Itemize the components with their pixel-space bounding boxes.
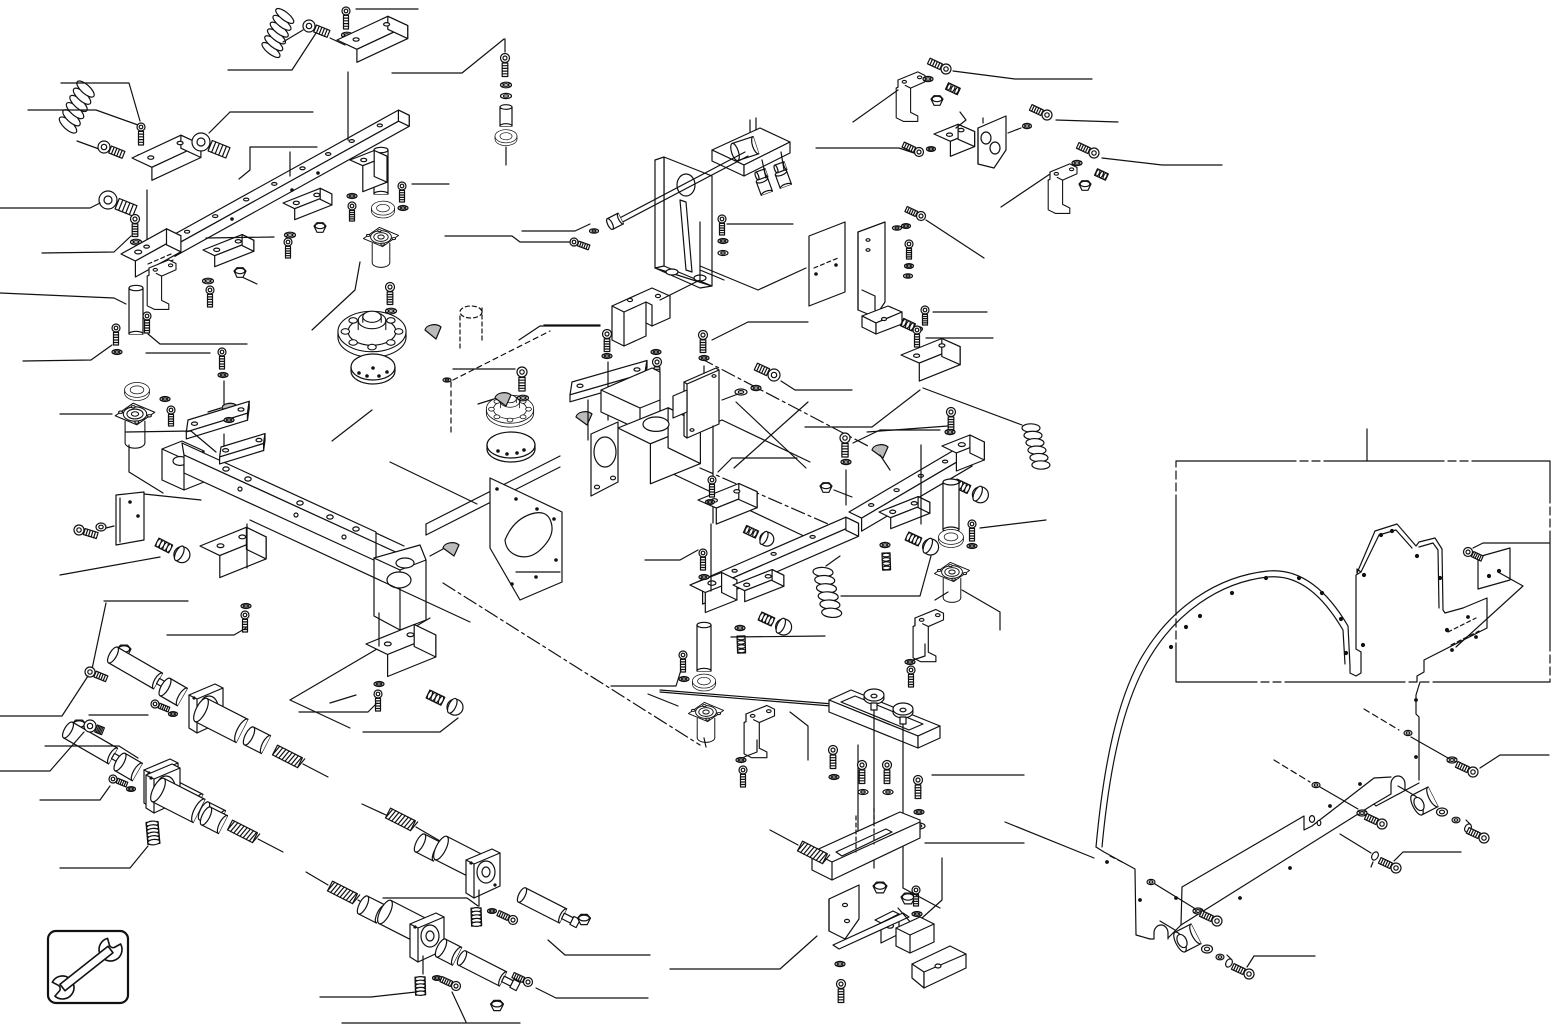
blade BC: [833, 908, 912, 949]
washer RLb: [1216, 954, 1224, 960]
left foot fastener line: [1155, 884, 1194, 908]
plate bottom-left edge: [390, 462, 477, 504]
tab bracket V3: [673, 390, 687, 418]
shock spring: [273, 745, 305, 768]
bolt RM: [708, 476, 716, 497]
ring below rotor2: [487, 432, 535, 462]
sheet plate V1: [809, 222, 845, 306]
top plate BC: [829, 690, 940, 748]
washer L: [433, 976, 442, 981]
axis line RRm: [1340, 834, 1371, 853]
washer under T1: [342, 32, 353, 38]
wedge w6 tail: [208, 408, 221, 412]
wrench icon box: [48, 931, 128, 1003]
tall cylinder CL: [697, 622, 711, 671]
leader bolt T1: [356, 8, 418, 10]
stud U: [471, 907, 482, 926]
leader RM: [718, 458, 797, 472]
washer BC-b: [858, 790, 868, 795]
panel foot arch left: [1154, 925, 1168, 933]
bolt L2: [440, 977, 461, 991]
small bar A: [220, 434, 265, 464]
washer U: [651, 350, 661, 355]
plate rear edge right: [672, 420, 722, 442]
bolt RM3: [1364, 814, 1387, 829]
bolt BC-f: [837, 980, 846, 1003]
clip BC: [875, 911, 899, 943]
bolt V2: [905, 240, 913, 259]
frame beam front holes: [238, 487, 242, 491]
T bracket MR2: [913, 609, 943, 661]
flange unit RA: [934, 562, 969, 602]
hex nut BC1: [873, 882, 887, 893]
line LP: [106, 526, 114, 528]
slide unit on rail upper: [283, 188, 332, 219]
shock sleeve: [112, 751, 143, 780]
washer MR2: [905, 660, 915, 665]
washer bar A: [224, 418, 234, 423]
washer BC-d1: [914, 810, 924, 815]
washer RL3: [699, 575, 709, 580]
leader BC right1: [932, 774, 1024, 776]
ring bearing H: [371, 201, 394, 218]
washer BC-c: [883, 790, 893, 795]
washer SG2: [127, 787, 136, 792]
leader LP plate: [144, 494, 201, 500]
long slat center: [570, 361, 647, 402]
bracket BC right: [896, 917, 934, 953]
tall cylinder RA: [943, 479, 959, 530]
screw K: [570, 238, 590, 250]
detail box border: [1176, 461, 1550, 682]
big socket bolt D: [99, 191, 137, 216]
flange U: [466, 849, 500, 898]
left foot bolt: [1199, 911, 1222, 926]
leader mid1c: [45, 746, 138, 758]
vertical line LL: [246, 524, 248, 568]
bolt SG1: [85, 667, 108, 682]
screw SG1b: [151, 700, 170, 712]
frame corner block left: [162, 441, 204, 490]
upper right dashed: [1364, 709, 1399, 730]
leader V plates: [700, 266, 806, 290]
frame left beam front face: [184, 455, 376, 561]
washer RLa: [1202, 945, 1213, 953]
grey wedge w3: [576, 412, 592, 425]
washer TR3: [1023, 123, 1032, 128]
shock big cylinder: [191, 696, 248, 742]
washer RM: [706, 500, 715, 505]
bolt top T1: [342, 7, 350, 29]
washer above rotor1: [386, 308, 397, 314]
spring L5 tail: [358, 900, 384, 915]
washer Q2: [751, 385, 761, 390]
line P4 down: [845, 470, 847, 505]
leader RA3: [980, 520, 1046, 528]
lockwasher RM2: [1447, 757, 1457, 763]
leader P2: [519, 326, 600, 340]
washer TR1: [923, 76, 933, 81]
T-bracket TR4: [1048, 164, 1077, 214]
bolt TR3: [1029, 105, 1052, 120]
shock spring: [228, 820, 260, 843]
bolt F: [284, 238, 292, 258]
bolt stack M1: [501, 54, 510, 77]
window cutout plate: [490, 478, 562, 600]
bolt RRm: [1378, 858, 1401, 873]
line MS to spring: [923, 388, 1022, 425]
leader RRm: [1394, 852, 1461, 861]
rail end block: [121, 229, 181, 277]
washer BC-a: [829, 775, 839, 780]
hex nut TR4: [1079, 181, 1091, 191]
washer TR4: [1072, 160, 1082, 165]
shock U: [516, 886, 581, 927]
wedge w4 tail: [880, 455, 890, 470]
holder mid: [146, 764, 180, 813]
panel upper long edge: [1182, 777, 1391, 887]
leader BC right2: [925, 842, 1024, 844]
bolt RU: [947, 408, 956, 430]
line MR: [834, 490, 852, 497]
washer V4: [904, 274, 913, 278]
spring m2: [386, 808, 418, 831]
zig line TR2: [956, 112, 966, 128]
fitting LR: [426, 690, 445, 705]
grey wedge w1: [425, 325, 441, 339]
stud TR1: [946, 83, 961, 95]
line CL down: [704, 738, 706, 747]
leader flange FL: [60, 413, 112, 415]
ring left: [125, 382, 150, 400]
rail R-lower: [690, 517, 859, 604]
microswitch block: [901, 339, 960, 382]
bolt Q: [754, 363, 780, 381]
mushroom screw BC1: [864, 689, 884, 710]
knob screw RL: [758, 612, 775, 626]
line P2 down: [607, 362, 609, 420]
washer RRb: [1452, 817, 1460, 823]
washer V1: [893, 226, 902, 230]
rail main: [164, 110, 409, 256]
panel arch outer: [1096, 571, 1350, 847]
leader M1: [392, 39, 504, 73]
base plate BC: [812, 812, 920, 880]
leader flange RA: [962, 590, 1000, 630]
dashed lines BC: [855, 816, 857, 852]
vertical line RR2: [712, 426, 714, 523]
bolt FL: [112, 324, 120, 345]
bolt TR1: [928, 58, 952, 74]
bolt RM2: [1455, 762, 1478, 777]
grey wedge w5: [443, 543, 459, 556]
rail R-upper: [849, 447, 972, 531]
left foot lockwasher: [1193, 908, 1203, 914]
centerline dashdot 1: [443, 583, 700, 745]
lockwasher RM3: [1357, 810, 1367, 816]
leader spring A: [228, 30, 318, 70]
leader BC lower: [670, 936, 817, 969]
block TR2a: [934, 124, 975, 156]
big socket bolt C: [192, 133, 230, 158]
block TR2b: [978, 116, 1006, 168]
leader G2: [148, 334, 247, 344]
washer BC-g: [912, 912, 922, 917]
leader L group: [320, 992, 416, 997]
slide unit RL: [733, 570, 784, 602]
washer LR: [374, 682, 384, 687]
bolt J: [718, 215, 726, 235]
junction block: [374, 545, 426, 630]
stud RU: [882, 553, 891, 570]
leader spring L5: [306, 872, 328, 885]
panel castellation top: [1357, 524, 1463, 613]
spring BC: [798, 841, 830, 864]
side plate V3 center: [684, 368, 719, 438]
wire spring B: [77, 141, 99, 149]
leader L bottom: [342, 1022, 520, 1024]
line arch to roller: [1160, 921, 1175, 930]
U-channel block: [612, 288, 670, 346]
sleeve L2: [433, 937, 462, 965]
leader BC left: [790, 712, 808, 760]
wrench icon: [52, 938, 122, 999]
shock big cylinder: [146, 771, 203, 817]
stud RL: [737, 636, 746, 653]
leader stand foot: [700, 270, 724, 280]
leader spring m2: [362, 804, 386, 815]
leader P1: [453, 368, 515, 370]
shoulder bolt A: [303, 20, 330, 37]
bolt BC-d: [914, 776, 923, 799]
washer SG1b: [169, 712, 178, 717]
washer P1: [518, 395, 529, 401]
bolt above rotor1: [386, 283, 395, 305]
leader LR3: [330, 695, 356, 703]
leader K: [445, 236, 570, 242]
washer TR2: [927, 147, 936, 152]
leader RL: [1247, 956, 1315, 967]
washer LL: [241, 604, 251, 609]
rail R-upper end block: [942, 435, 984, 471]
panel plate BR: [1417, 598, 1487, 682]
washer E: [131, 239, 142, 245]
shock sleeve 2: [196, 800, 225, 828]
tall cylinder TR: [374, 147, 388, 194]
line P3 down: [703, 366, 705, 420]
slide unit RU: [879, 497, 930, 529]
frame left beam top face: [182, 443, 376, 543]
bracket on rail right: [350, 151, 387, 192]
washer V3: [905, 264, 914, 269]
leader Q: [781, 381, 852, 390]
rail R-lower end block: [690, 573, 737, 613]
washer J2: [718, 251, 728, 256]
leader bolt D: [0, 203, 100, 208]
spring A top: [258, 5, 299, 61]
leader TR4b: [1102, 158, 1222, 165]
wedge w2 tail: [478, 399, 494, 404]
leader BC-g: [922, 858, 942, 918]
washer stack M1a: [501, 82, 512, 88]
rotor assembly 1: [338, 311, 406, 357]
screw in box: [1464, 548, 1484, 562]
bolt I: [398, 182, 406, 202]
panel castellation top inner: [1361, 530, 1439, 608]
washer P3: [699, 356, 709, 361]
hex nut slide1: [234, 268, 246, 278]
leader L1 to bolt B3: [61, 83, 140, 121]
piston rod: [612, 152, 745, 222]
leader V: [926, 220, 984, 258]
dashed ghost cylinder: [459, 316, 461, 348]
plate rear edge left: [426, 456, 560, 524]
washer LP: [96, 523, 106, 531]
bolt G: [143, 312, 151, 333]
bolt below slide1: [206, 286, 214, 307]
leader P4: [853, 430, 940, 443]
bolt SG2 knob: [84, 720, 104, 735]
line BC right3: [903, 888, 940, 908]
bolt SG2: [109, 775, 128, 787]
panel right lower edge: [1416, 682, 1420, 780]
leader rotor1: [332, 410, 372, 441]
leader RL3: [645, 550, 698, 560]
fastener line RM3: [1320, 787, 1358, 809]
washer RA3: [967, 544, 977, 549]
ring small M1: [495, 130, 517, 146]
grey wedge w6: [222, 403, 236, 415]
frame left beam holes: [223, 467, 229, 471]
vertical line RR3: [920, 445, 922, 524]
fitting LL stud: [155, 538, 173, 553]
leader LR1: [299, 703, 377, 712]
bolt CL4: [739, 766, 747, 787]
angle bracket BC: [829, 885, 859, 939]
leader CL2: [648, 694, 678, 706]
grey wedge w4: [872, 445, 888, 458]
fastener line RM2: [1411, 737, 1448, 758]
dashed vert line: [450, 382, 452, 432]
T-bracket TR1: [896, 72, 925, 122]
leader U group: [383, 898, 478, 906]
X cross lines: [734, 402, 808, 468]
vertical line BC2: [902, 724, 904, 888]
line L down: [422, 956, 424, 974]
plate floor edge B: [250, 520, 470, 622]
lower right dashed: [1274, 760, 1310, 782]
line CL4: [744, 740, 757, 757]
small plate in box: [1478, 548, 1510, 589]
hexnut L: [491, 1000, 504, 1010]
rod end cap: [605, 213, 623, 230]
bolt P3: [699, 331, 708, 353]
hole washer RM2: [1404, 730, 1412, 735]
rotor1 base dots: [358, 372, 360, 374]
flange L: [410, 913, 444, 962]
washer FL: [112, 350, 122, 355]
leader spring R2: [841, 556, 931, 596]
cylinder L: [375, 898, 427, 942]
washer FL2: [160, 397, 170, 402]
fitting feed lines: [762, 160, 766, 178]
window plate dots: [496, 488, 498, 490]
big cylinder mid: [148, 776, 205, 822]
washer CL4: [736, 758, 746, 763]
flange unit FL: [115, 403, 155, 448]
tilted washer RRc: [1463, 820, 1473, 833]
vertical line BC1: [873, 710, 875, 868]
leader flange H: [312, 262, 360, 330]
leader SG1b: [89, 714, 148, 716]
spring B: [54, 77, 99, 136]
line block B2 down: [146, 190, 148, 262]
bolt V3: [921, 306, 929, 325]
leader U shock: [548, 940, 650, 955]
bolt MR2: [907, 666, 915, 687]
leader LL1: [104, 600, 188, 602]
leader screw in box: [1473, 543, 1549, 548]
leader to bolt B3: [28, 110, 138, 125]
hexnut U: [578, 914, 591, 924]
leader panel left: [1005, 822, 1094, 858]
washer P2: [602, 354, 612, 359]
leader LL3: [167, 628, 246, 635]
spring R2: [811, 563, 844, 622]
leader big block: [544, 324, 600, 326]
block B2: [132, 135, 201, 180]
washer V2: [902, 224, 911, 229]
washer slide1: [203, 278, 214, 284]
leader LR2: [363, 718, 458, 732]
leader U: [660, 222, 700, 300]
bolt slat: [218, 348, 226, 369]
block LR: [366, 625, 436, 677]
leader L shock: [536, 988, 648, 998]
washer on rod: [590, 229, 599, 233]
shock spring tail: [303, 764, 328, 777]
leader I: [412, 183, 449, 185]
foot plate BC: [912, 946, 966, 988]
bolt TR4: [1076, 143, 1099, 158]
vertical line rail mid: [289, 152, 291, 176]
cylinder under rail: [129, 285, 143, 334]
panel finger bottom U: [1350, 652, 1361, 676]
stud RM fitting: [743, 526, 758, 539]
cylinder U: [431, 834, 483, 878]
knob screw RU: [905, 532, 922, 546]
block side plate: [591, 422, 618, 496]
leader spring BC: [770, 830, 798, 845]
leader LL stud: [60, 557, 160, 575]
washer under B3: [137, 154, 148, 160]
L-bracket under rail: [147, 260, 176, 310]
plate edge to right rail: [671, 473, 808, 538]
ring RA: [939, 529, 964, 547]
leader TR4: [1001, 174, 1050, 207]
T bracket CL: [744, 705, 774, 757]
panel plate BR dashes: [1448, 618, 1476, 632]
bolt P1: [517, 367, 527, 391]
shock holder plate: [144, 759, 178, 808]
washer slat: [218, 373, 228, 378]
panel left lower edge: [1096, 847, 1150, 939]
rotor2 base dots: [497, 450, 499, 452]
washer H: [347, 194, 357, 199]
bolt RRd: [1466, 828, 1489, 843]
thin rod BC: [660, 690, 833, 704]
centerline dashdot 3: [700, 468, 860, 538]
